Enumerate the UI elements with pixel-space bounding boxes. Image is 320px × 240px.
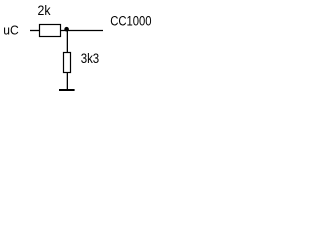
svg-text:uC: uC bbox=[3, 23, 18, 38]
svg-text:3k3: 3k3 bbox=[81, 51, 100, 66]
svg-text:2k: 2k bbox=[38, 3, 51, 18]
svg-text:CC1000: CC1000 bbox=[110, 14, 151, 29]
